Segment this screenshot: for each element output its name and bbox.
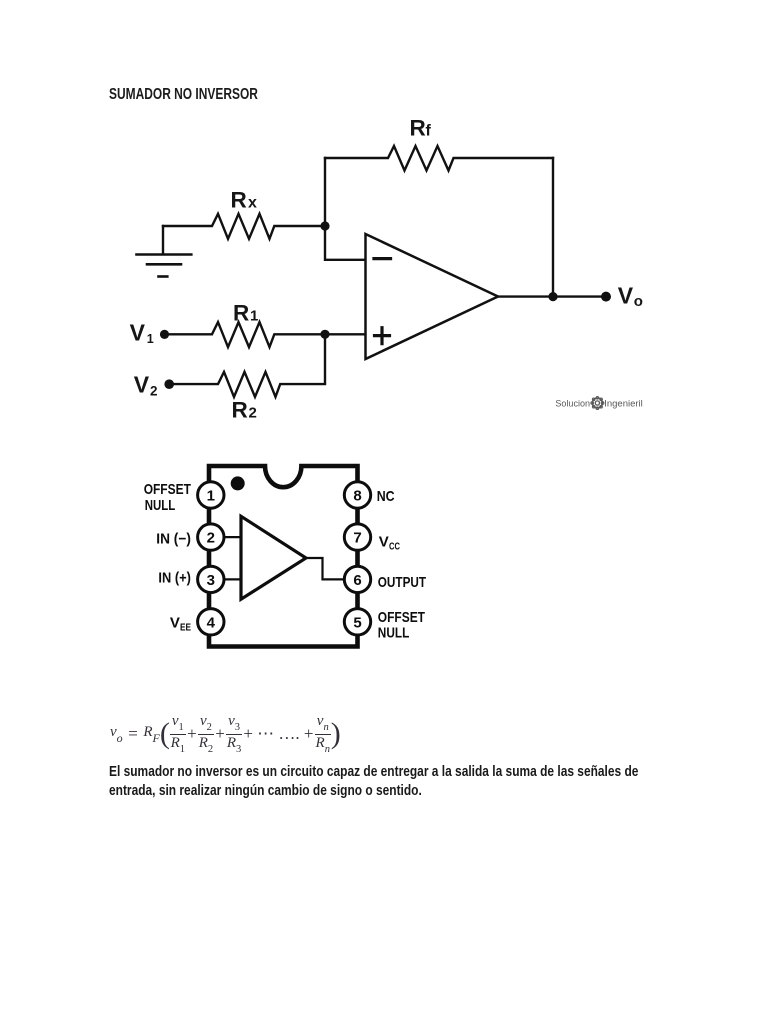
svg-text:4: 4 xyxy=(207,614,216,631)
svg-text:Ingenieril: Ingenieril xyxy=(604,398,643,408)
svg-text:x: x xyxy=(248,194,257,211)
svg-text:V: V xyxy=(618,282,634,308)
svg-text:R: R xyxy=(231,187,247,212)
svg-text:V: V xyxy=(130,320,146,346)
svg-text:NULL: NULL xyxy=(378,625,410,642)
svg-text:1: 1 xyxy=(207,488,215,505)
svg-text:1: 1 xyxy=(250,308,258,325)
svg-text:R: R xyxy=(410,115,426,140)
svg-text:CC: CC xyxy=(389,541,400,553)
svg-text:2: 2 xyxy=(207,530,215,547)
svg-text:2: 2 xyxy=(150,383,158,398)
svg-text:IN (+): IN (+) xyxy=(158,570,191,587)
svg-text:OUTPUT: OUTPUT xyxy=(378,574,426,591)
svg-text:6: 6 xyxy=(353,572,361,589)
svg-text:2: 2 xyxy=(249,405,257,422)
svg-text:R: R xyxy=(232,398,248,423)
svg-text:V: V xyxy=(134,372,150,398)
svg-text:V: V xyxy=(379,534,389,551)
svg-text:EE: EE xyxy=(180,622,191,634)
svg-text:NULL: NULL xyxy=(145,497,176,514)
svg-text:f: f xyxy=(426,122,432,139)
svg-text:IN (−): IN (−) xyxy=(156,531,191,548)
svg-text:3: 3 xyxy=(207,572,215,589)
svg-text:OFFSET: OFFSET xyxy=(378,609,425,626)
svg-text:R: R xyxy=(233,301,249,326)
svg-text:OFFSET: OFFSET xyxy=(144,481,191,498)
svg-text:1: 1 xyxy=(147,332,154,346)
svg-text:o: o xyxy=(634,293,643,310)
svg-text:NC: NC xyxy=(377,488,395,505)
svg-text:Solucion: Solucion xyxy=(555,398,590,408)
svg-text:8: 8 xyxy=(353,488,361,505)
svg-text:5: 5 xyxy=(353,614,361,631)
svg-text:V: V xyxy=(170,615,180,632)
svg-text:7: 7 xyxy=(353,530,361,547)
